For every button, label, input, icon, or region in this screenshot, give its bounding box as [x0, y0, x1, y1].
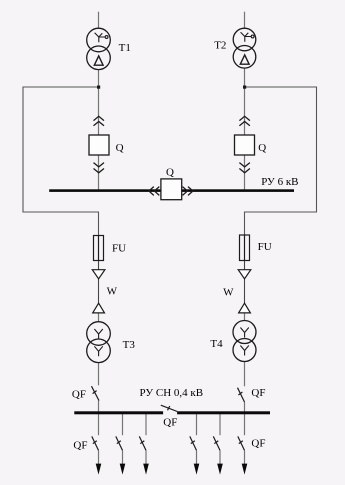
svg-text:QF: QF	[251, 387, 265, 399]
svg-text:W: W	[107, 286, 118, 298]
svg-text:QF: QF	[163, 416, 177, 428]
svg-text:РУ СН 0,4 кВ: РУ СН 0,4 кВ	[140, 387, 204, 399]
svg-text:FU: FU	[258, 241, 272, 253]
svg-text:Q: Q	[116, 142, 124, 154]
svg-text:QF: QF	[251, 437, 265, 449]
svg-text:Т2: Т2	[214, 39, 226, 51]
svg-text:Т1: Т1	[119, 42, 131, 54]
svg-text:FU: FU	[112, 243, 126, 255]
svg-text:Q: Q	[166, 166, 174, 178]
svg-text:Т3: Т3	[123, 339, 136, 351]
svg-text:Q: Q	[258, 142, 266, 154]
svg-text:W: W	[223, 287, 234, 299]
svg-text:QF: QF	[73, 439, 87, 451]
svg-text:QF: QF	[72, 388, 86, 400]
svg-text:РУ 6 кВ: РУ 6 кВ	[261, 176, 298, 188]
svg-text:Т4: Т4	[210, 338, 223, 350]
